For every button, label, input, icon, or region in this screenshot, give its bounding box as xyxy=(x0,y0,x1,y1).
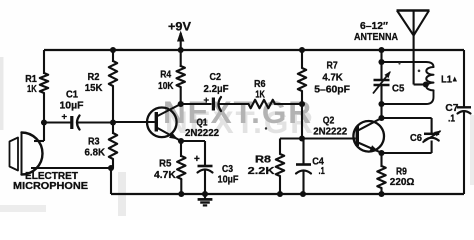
svg-text:R8: R8 xyxy=(255,154,271,166)
svg-text:R7: R7 xyxy=(327,59,338,71)
svg-text:220Ω: 220Ω xyxy=(390,176,415,188)
svg-text:10µF: 10µF xyxy=(218,174,239,186)
svg-text:10K: 10K xyxy=(158,80,174,92)
svg-text:+9V: +9V xyxy=(168,20,191,34)
svg-text:2.2K: 2.2K xyxy=(248,165,275,177)
svg-text:15K: 15K xyxy=(85,82,103,94)
svg-text:.1: .1 xyxy=(448,113,455,125)
svg-text:L1: L1 xyxy=(441,74,452,86)
svg-text:4.7K: 4.7K xyxy=(154,169,176,181)
svg-text:R3: R3 xyxy=(88,135,100,147)
svg-text:2N2222: 2N2222 xyxy=(313,126,347,138)
svg-text:C2: C2 xyxy=(210,71,222,83)
svg-text:+: + xyxy=(62,112,68,123)
svg-text:5–60pF: 5–60pF xyxy=(314,84,350,96)
svg-text:1K: 1K xyxy=(255,89,265,101)
svg-text:R5: R5 xyxy=(159,158,172,170)
svg-text:ANTENNA: ANTENNA xyxy=(354,32,399,43)
svg-text:6–12″: 6–12″ xyxy=(360,20,388,32)
svg-text:2N2222: 2N2222 xyxy=(185,127,219,139)
svg-text:2.2µF: 2.2µF xyxy=(204,83,230,95)
svg-text:4.7K: 4.7K xyxy=(322,72,343,84)
svg-text:.1: .1 xyxy=(319,165,325,177)
svg-text:C5: C5 xyxy=(392,83,404,95)
svg-text:R4: R4 xyxy=(160,68,171,80)
svg-text:+: + xyxy=(204,95,210,106)
svg-text:NEXT.GR: NEXT.GR xyxy=(163,94,311,130)
svg-text:MICROPHONE: MICROPHONE xyxy=(13,181,88,192)
svg-text:10µF: 10µF xyxy=(60,100,85,112)
svg-text:1K: 1K xyxy=(27,83,37,95)
svg-text:C6: C6 xyxy=(410,132,422,144)
svg-text:6.8K: 6.8K xyxy=(85,147,106,159)
svg-text:+: + xyxy=(194,154,200,165)
